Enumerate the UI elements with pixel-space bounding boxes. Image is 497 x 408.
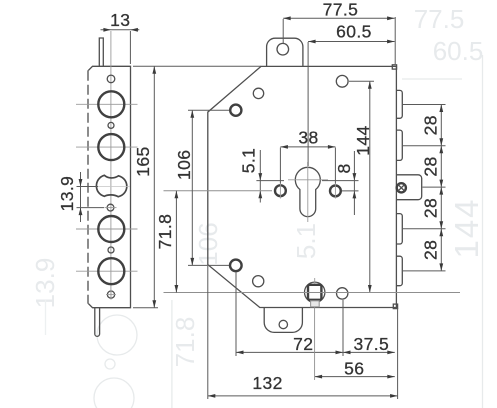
dim 77.5 left extension <box>282 19 284 43</box>
dimension 38 line <box>280 146 335 148</box>
svg-text:71.8: 71.8 <box>155 214 175 250</box>
side plate hidden left edge (dashed overdraw) <box>87 71 89 303</box>
hole bottom thin <box>253 276 264 287</box>
bolt circle 3 <box>98 216 124 242</box>
svg-text:28: 28 <box>421 115 441 135</box>
fixing hole right of keyhole <box>330 186 341 197</box>
spindle follower square <box>308 285 321 300</box>
svg-text:28: 28 <box>421 198 441 218</box>
dimension 13 line <box>101 29 140 31</box>
dim 13.9 extension ticks <box>77 186 99 188</box>
bolt block 3 right edge <box>396 214 402 244</box>
hole top thick <box>230 105 241 116</box>
SIDE VIEW (left) <box>76 31 138 336</box>
corner mark top right <box>392 65 396 69</box>
spindle follower circle <box>305 282 325 302</box>
dim 60.5 left extension down to keyhole <box>307 42 309 166</box>
svg-text:106: 106 <box>174 150 194 180</box>
dimension 60.5 line <box>308 41 395 43</box>
keyhole centerline vertical <box>307 162 309 222</box>
bolt block 1 right edge <box>396 90 402 118</box>
bolt circle 4 <box>98 258 124 284</box>
svg-text:77.5: 77.5 <box>414 4 465 34</box>
ghost vertical dim line left of 71.8 <box>171 300 173 408</box>
svg-text:72: 72 <box>293 334 313 354</box>
dimension 165 line <box>153 66 155 307</box>
dimension 8 line <box>353 151 355 215</box>
svg-text:132: 132 <box>252 373 282 393</box>
FRONT VIEW DIMENSIONS <box>155 0 460 399</box>
dim 13 right extension <box>129 31 131 64</box>
svg-text:38: 38 <box>298 128 318 148</box>
dimension 13.9 line <box>80 172 82 222</box>
side plate outline <box>88 66 131 307</box>
28 ticks arrows <box>439 105 443 113</box>
keyhole euro profile <box>295 167 320 216</box>
front plate outline <box>208 66 397 307</box>
ghost vertical dim line right edge <box>482 55 484 408</box>
bottom extension lines <box>235 272 237 356</box>
long reference line y292.5 <box>164 292 461 294</box>
bolt block 4 right edge <box>396 256 402 286</box>
bottom mounting tab <box>264 308 302 333</box>
SIDE VIEW DIMENSIONS <box>57 10 261 308</box>
ghost bolt circle 2 below side view <box>94 378 134 408</box>
dimension 71.8 line <box>175 191 177 293</box>
faceplate screw <box>397 183 406 192</box>
dim 5.1 tick keyhole centre height <box>256 180 284 182</box>
hole top thin <box>253 88 263 98</box>
latch barrel shape <box>96 175 126 196</box>
screw hole bottom right <box>337 288 348 299</box>
svg-text:5.1: 5.1 <box>239 148 259 174</box>
dimension 72 line <box>236 351 343 353</box>
follower vertical centerline <box>314 278 316 284</box>
svg-text:8: 8 <box>334 163 354 173</box>
svg-text:28: 28 <box>421 240 441 260</box>
dim 165 bottom extension <box>133 307 158 309</box>
dim 8 ticks <box>322 180 359 182</box>
bolt circle 2 <box>98 134 124 160</box>
svg-text:60.5: 60.5 <box>433 36 484 66</box>
top mounting ear <box>267 38 303 66</box>
barrel centerline <box>98 186 130 188</box>
svg-text:37.5: 37.5 <box>353 334 389 354</box>
centerline row bolt 3 <box>76 228 138 230</box>
follower stem below <box>311 301 320 307</box>
dimension 37.5 line <box>343 351 395 353</box>
svg-text:13.9: 13.9 <box>57 176 77 212</box>
svg-text:144: 144 <box>448 197 485 258</box>
bolt circle 1 <box>98 91 124 117</box>
dim 38 extensions <box>279 148 281 184</box>
bottom rod <box>95 308 100 336</box>
hole bottom thick <box>230 260 242 272</box>
dimension 77.5 line <box>283 17 394 19</box>
crosshair row reference line <box>164 190 273 192</box>
svg-text:28: 28 <box>421 156 441 176</box>
centerline row bolt 4 <box>76 270 138 272</box>
svg-text:60.5: 60.5 <box>336 22 372 42</box>
dim 144 top extension <box>349 80 374 82</box>
dimension 144 line <box>369 81 371 292</box>
svg-text:165: 165 <box>133 146 153 176</box>
keyhole centerline horizontal <box>288 179 328 181</box>
dimension 28 chain line <box>440 105 442 271</box>
ghost dot circle below side view <box>105 359 115 369</box>
bottom tab hole <box>279 320 287 328</box>
small dot hole 2 <box>108 247 114 253</box>
top rod <box>99 38 103 66</box>
fixing hole left of keyhole <box>275 185 286 196</box>
svg-text:13: 13 <box>110 10 130 30</box>
latch block right edge <box>396 175 421 200</box>
dimension 106 line <box>191 110 193 265</box>
svg-text:71.8: 71.8 <box>170 317 200 368</box>
small dot hole 1 <box>108 122 114 128</box>
dimension 5.1 line <box>259 150 261 203</box>
svg-text:77.5: 77.5 <box>323 0 359 20</box>
dimension 132 line <box>208 395 398 397</box>
svg-text:5.1: 5.1 <box>291 223 321 259</box>
dimension 56 line <box>315 376 395 378</box>
ghost dim line top right <box>402 78 462 80</box>
ghost bolt circle 1 below side view <box>97 315 137 355</box>
vertical centerline <box>110 31 112 298</box>
FRONT VIEW <box>208 38 422 332</box>
dim 106 extensions <box>188 109 229 111</box>
crosshair hole mid <box>107 204 114 211</box>
top projection line <box>133 65 261 67</box>
centerline row bolt 1 <box>76 103 138 105</box>
corner mark bottom right <box>393 304 397 309</box>
top screw hole <box>107 75 115 83</box>
28 extension lines <box>403 104 446 106</box>
bottom screw hole <box>107 291 114 298</box>
ghost dim arrow below 13.9 <box>45 300 47 335</box>
screw hole top right <box>336 75 348 87</box>
top ear hole <box>277 43 289 55</box>
centerline row bolt 2 <box>76 146 138 148</box>
dim right edge extension <box>394 17 396 64</box>
svg-text:56: 56 <box>344 359 364 379</box>
bolt block 2 right edge <box>396 130 402 160</box>
